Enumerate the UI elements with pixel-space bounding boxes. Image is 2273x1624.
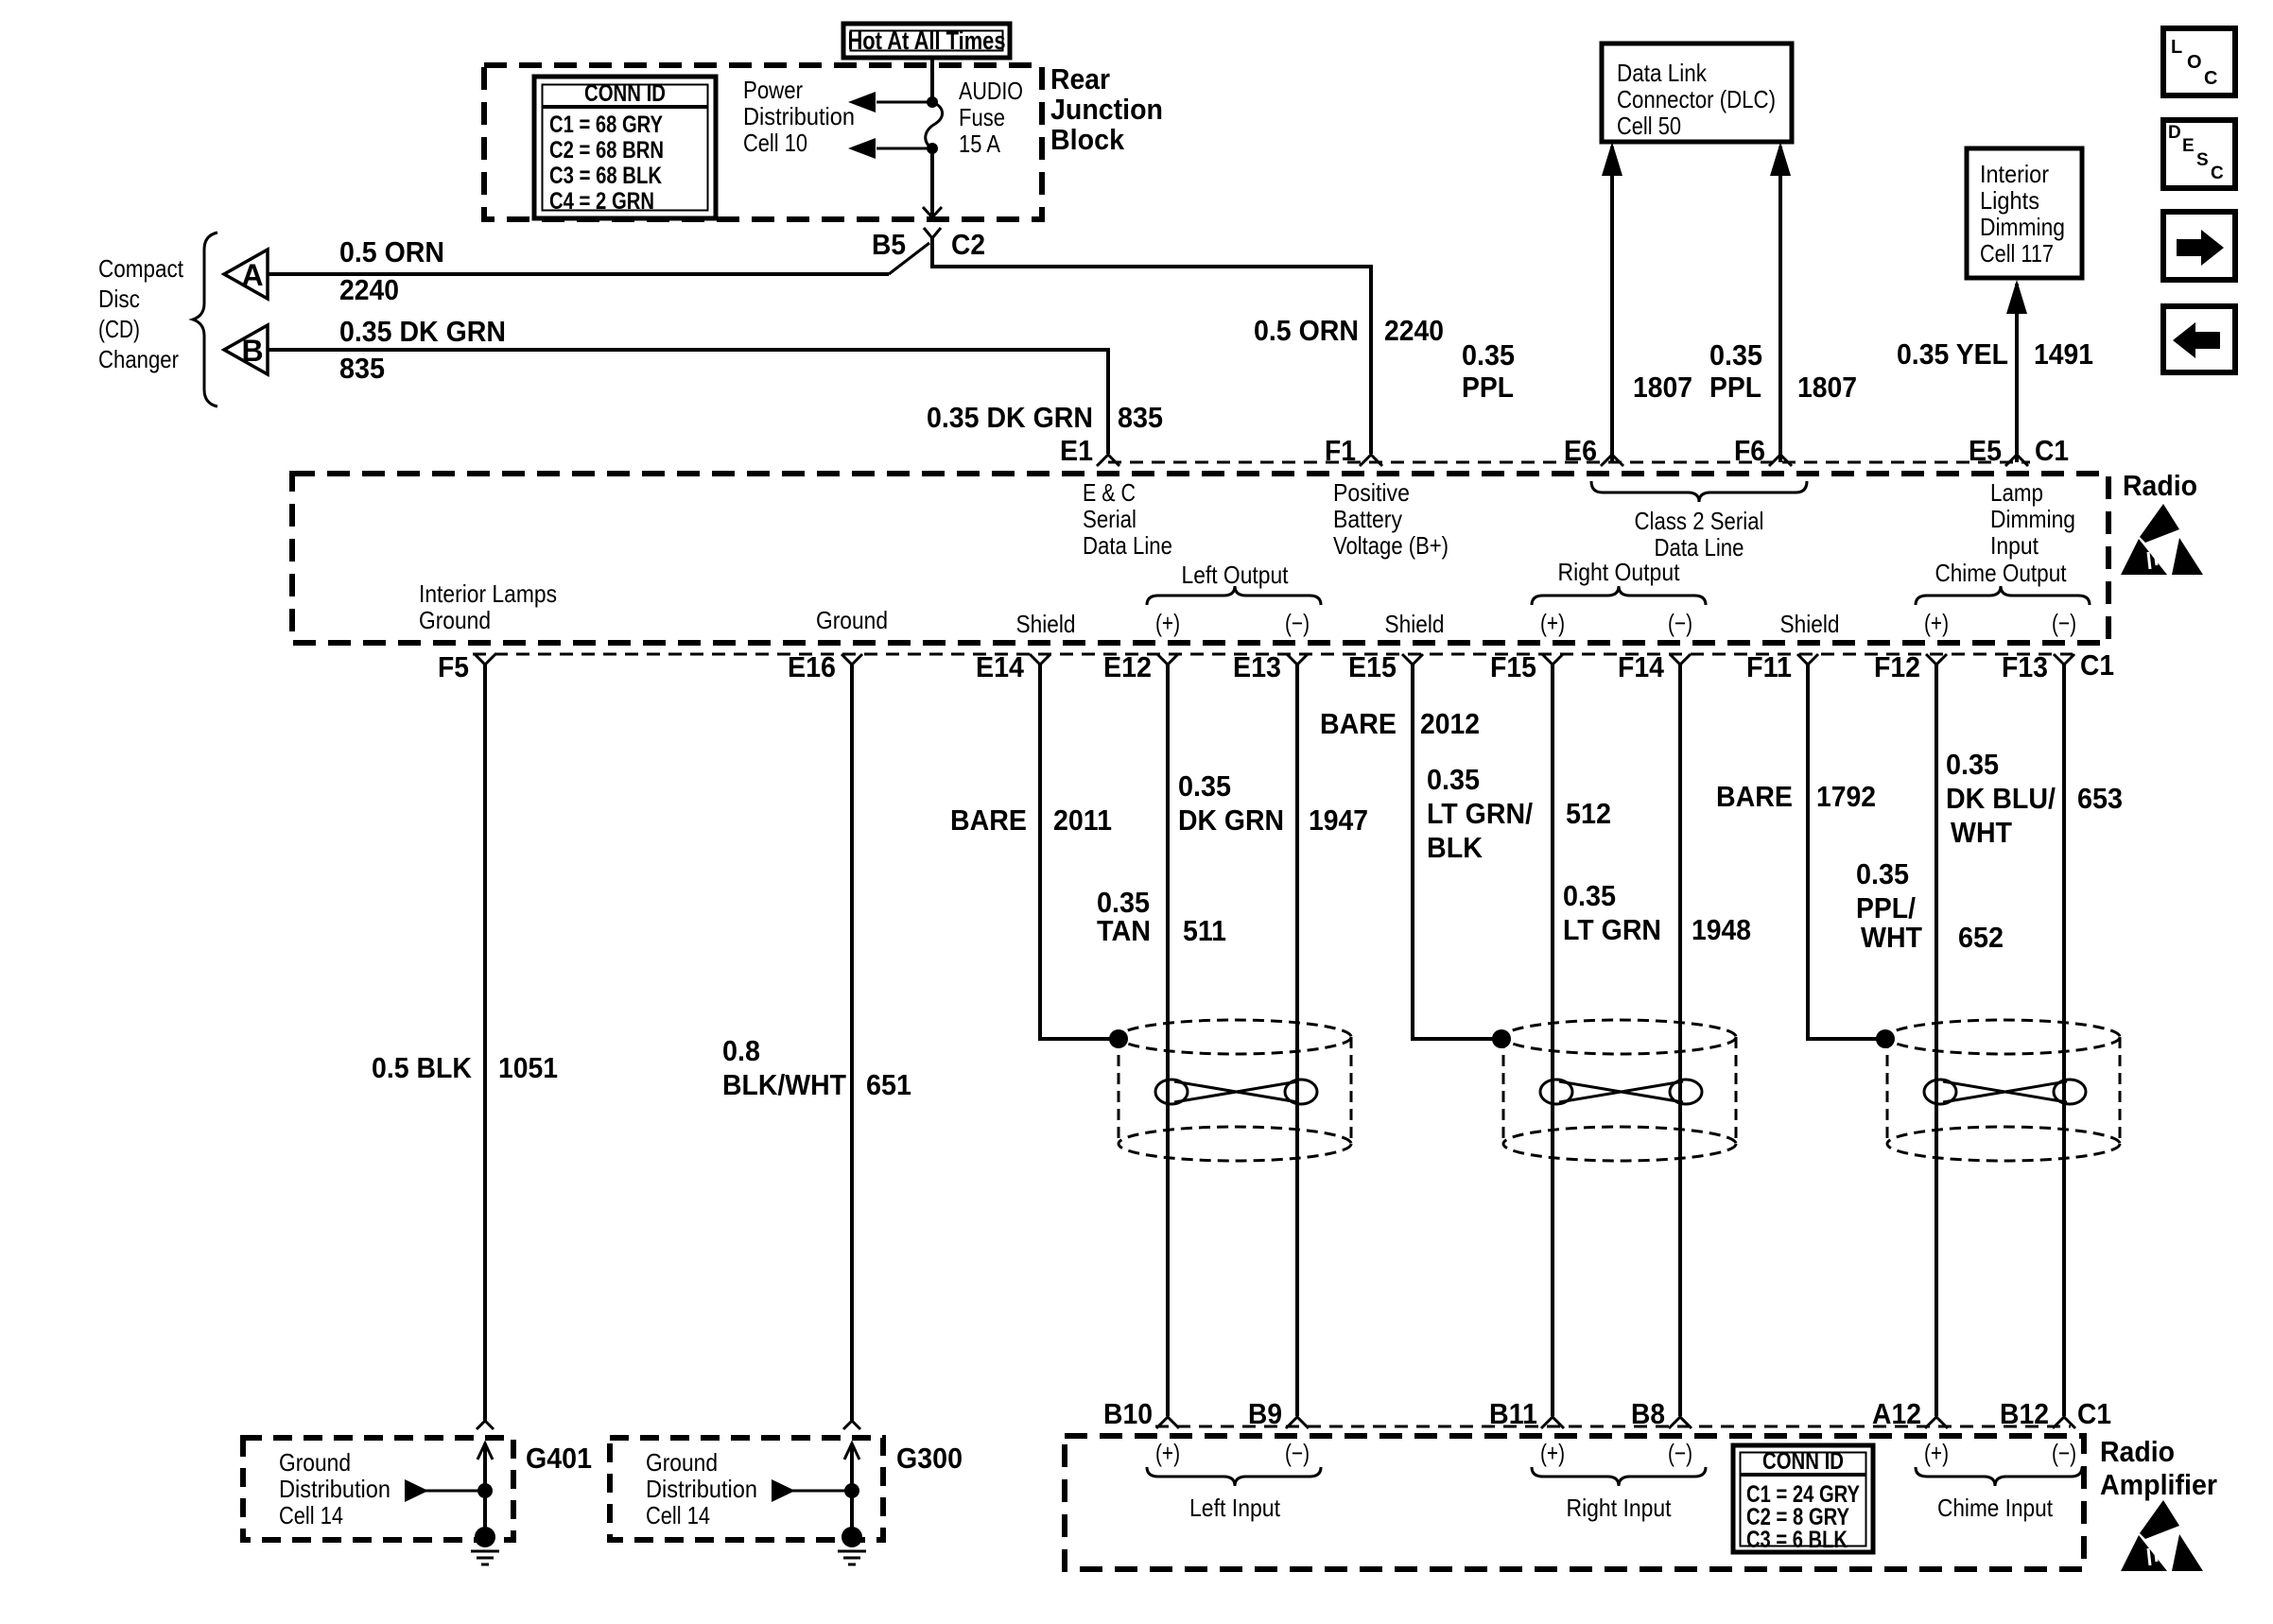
pin F11 fork (1797, 654, 1818, 673)
svg-text:Distribution: Distribution (743, 102, 855, 130)
svg-text:Interior: Interior (1980, 160, 2049, 188)
svg-text:Radio: Radio (2123, 469, 2197, 502)
svg-text:E14: E14 (976, 650, 1025, 683)
svg-text:WHT: WHT (1861, 921, 1922, 954)
svg-text:B5: B5 (872, 228, 906, 261)
pin E13 fork (1287, 654, 1308, 673)
connector B5 / C2 fork (872, 228, 985, 261)
svg-text:2240: 2240 (1384, 314, 1444, 347)
label 0.35 DK GRN | 835 (at E1) (927, 401, 1163, 434)
svg-text:G300: G300 (896, 1442, 963, 1475)
Radio dashed box (292, 474, 2108, 643)
svg-text:0.35: 0.35 (1178, 769, 1231, 803)
Ground Distribution Cell 14 label (G300) (646, 1448, 757, 1529)
Data Link Connector (DLC) box (1602, 43, 1792, 142)
twisted pair symbol 1 (1155, 1080, 1317, 1104)
label 0.35 DK GRN / 835 (wire B) (339, 315, 506, 385)
svg-text:0.5 ORN: 0.5 ORN (1254, 314, 1359, 347)
svg-text:Distribution: Distribution (646, 1475, 757, 1503)
Positive Battery Voltage label (1333, 478, 1449, 560)
brace for CD changer (193, 233, 217, 406)
pin B8 fork (1669, 1416, 1692, 1428)
svg-text:0.35: 0.35 (1427, 763, 1480, 796)
svg-text:(+): (+) (1155, 1439, 1180, 1467)
svg-text:(+): (+) (1924, 609, 1949, 637)
wire F13 to B12 (2062, 665, 2066, 1416)
svg-text:E13: E13 (1233, 650, 1281, 683)
pin B12 fork (2053, 1416, 2075, 1428)
junction dot shield 1 (1109, 1029, 1128, 1048)
arrow to Power Distribution (bottom) (848, 138, 932, 159)
svg-text:BARE: BARE (1716, 780, 1793, 813)
svg-text:Serial: Serial (1083, 505, 1136, 533)
arrow into G300 (844, 1443, 859, 1490)
svg-text:BARE: BARE (950, 803, 1027, 837)
svg-text:0.35 DK GRN: 0.35 DK GRN (339, 315, 506, 348)
arrow to Power Distribution (top) (848, 92, 932, 112)
svg-text:O: O (2187, 52, 2202, 73)
svg-text:Cell 50: Cell 50 (1617, 112, 1681, 140)
svg-text:F13: F13 (2002, 650, 2048, 683)
svg-text:C: C (2204, 68, 2217, 89)
svg-text:(+): (+) (1540, 609, 1565, 637)
ground G300 dashed box (610, 1438, 883, 1540)
Ground Distribution Cell 14 label (G401) (279, 1448, 390, 1529)
svg-text:Left Output: Left Output (1182, 561, 1290, 589)
svg-text:C1: C1 (2077, 1397, 2111, 1430)
svg-text:652: 652 (1958, 921, 2004, 954)
label BARE | 2012 (1320, 707, 1480, 740)
svg-text:Shield: Shield (1016, 610, 1076, 638)
svg-text:(−): (−) (1668, 609, 1692, 637)
svg-text:D: D (2168, 123, 2181, 143)
label 0.35 TAN | 511 (1097, 886, 1226, 947)
svg-text:Compact: Compact (98, 254, 184, 283)
svg-text:E: E (2182, 136, 2195, 156)
svg-text:15 A: 15 A (959, 130, 1001, 158)
svg-text:1948: 1948 (1692, 913, 1751, 946)
svg-text:0.5 ORN: 0.5 ORN (339, 235, 444, 268)
svg-text:Data Line: Data Line (1083, 531, 1172, 560)
Left Input brace and label (1147, 1467, 1321, 1486)
Power Distribution Cell 10 label (743, 76, 855, 157)
svg-text:0.35: 0.35 (1709, 338, 1762, 371)
pin A12 fork (1925, 1416, 1948, 1428)
svg-text:Shield: Shield (1780, 610, 1840, 638)
svg-text:0.35: 0.35 (1563, 879, 1616, 912)
radio bottom connector line C1 (473, 653, 2073, 656)
label 0.5 BLK | 1051 (372, 1051, 558, 1084)
svg-text:E1: E1 (1060, 434, 1093, 467)
svg-text:Right Output: Right Output (1558, 558, 1681, 586)
svg-text:(−): (−) (1285, 609, 1310, 637)
svg-text:B10: B10 (1103, 1397, 1153, 1430)
svg-text:DK BLU/: DK BLU/ (1946, 782, 2056, 815)
svg-text:Amplifier: Amplifier (2100, 1468, 2217, 1501)
svg-text:0.8: 0.8 (722, 1034, 760, 1067)
branch arrow inside G300 (772, 1479, 859, 1502)
svg-text:Right Input: Right Input (1567, 1494, 1673, 1522)
svg-text:2012: 2012 (1420, 707, 1480, 740)
svg-text:1807: 1807 (1633, 371, 1692, 404)
svg-text:1807: 1807 (1797, 371, 1857, 404)
CD changer connector B (224, 325, 268, 374)
svg-text:B8: B8 (1631, 1397, 1665, 1430)
svg-text:C2 = 68 BRN: C2 = 68 BRN (549, 137, 664, 164)
svg-text:Cell 14: Cell 14 (279, 1501, 343, 1529)
svg-text:(CD): (CD) (98, 315, 140, 343)
svg-text:A: A (241, 258, 263, 292)
wire F6 up-arrow to DLC (1770, 142, 1791, 462)
svg-text:F6: F6 (1734, 434, 1765, 467)
svg-text:Chime Input: Chime Input (1937, 1494, 2054, 1522)
svg-text:Interior Lamps: Interior Lamps (419, 579, 557, 608)
svg-text:Data Link: Data Link (1617, 59, 1708, 87)
svg-text:BLK/WHT: BLK/WHT (722, 1068, 846, 1101)
svg-text:CONN ID: CONN ID (1762, 1448, 1844, 1475)
svg-text:Shield: Shield (1385, 610, 1445, 638)
pin F1 fork (1360, 454, 1382, 466)
label 0.35 LT GRN/BLK | 512 (1427, 763, 1611, 864)
svg-text:0.35: 0.35 (1462, 338, 1515, 371)
svg-text:E12: E12 (1103, 650, 1152, 683)
svg-text:BLK: BLK (1427, 831, 1484, 864)
svg-text:LT GRN: LT GRN (1563, 913, 1661, 946)
svg-text:Cell 14: Cell 14 (646, 1501, 710, 1529)
Rear Junction Block dashed box (484, 65, 1042, 219)
svg-text:Changer: Changer (98, 345, 179, 373)
twisted pair symbol 2 (1540, 1080, 1702, 1104)
wire E6 up-arrow to DLC (1602, 142, 1622, 462)
twisted pair shield 1 (dashed cylinder) (1119, 1020, 1351, 1161)
amplifier top connector line C1 (1155, 1425, 2071, 1428)
wire E5 up-arrow to Interior Lights Dimming (2006, 280, 2027, 462)
svg-text:Ground: Ground (816, 606, 888, 634)
svg-text:511: 511 (1183, 914, 1226, 947)
svg-text:2240: 2240 (339, 273, 399, 306)
wire E15 shield to twisted pair 2 (1413, 665, 1495, 1039)
CONN ID table (radio amplifier) (1733, 1445, 1873, 1553)
ground symbol G401 (471, 1491, 499, 1564)
svg-text:E16: E16 (788, 650, 836, 683)
radio top connector line C1 (1108, 461, 2030, 464)
svg-text:0.35: 0.35 (1946, 748, 1999, 781)
wire E16 to G300 (850, 665, 854, 1421)
label 0.35 DK BLU/WHT | 653 (1946, 748, 2123, 849)
svg-text:0.35: 0.35 (1856, 857, 1909, 890)
connector fork into G300 (843, 1421, 860, 1429)
Class 2 Serial Data Line brace (1591, 481, 1807, 502)
svg-text:Ground: Ground (646, 1448, 718, 1477)
svg-text:WHT: WHT (1951, 816, 2012, 849)
svg-text:Rear: Rear (1050, 62, 1110, 95)
junction dot shield 2 (1492, 1029, 1511, 1048)
pin F13 fork (2054, 654, 2074, 673)
svg-text:(+): (+) (1155, 609, 1180, 637)
svg-text:Dimming: Dimming (1990, 505, 2075, 533)
svg-text:E5: E5 (1969, 434, 2002, 467)
svg-text:L: L (2171, 37, 2182, 58)
svg-text:DK GRN: DK GRN (1178, 803, 1284, 837)
pin F5 fork (475, 654, 495, 673)
CONN ID table (rear junction block) (534, 77, 716, 218)
twisted pair symbol 3 (1924, 1080, 2086, 1104)
svg-text:F5: F5 (438, 650, 469, 683)
pin F14 fork (1670, 654, 1691, 673)
svg-text:0.35 YEL: 0.35 YEL (1897, 337, 2008, 371)
Interior Lights Dimming box (1967, 148, 2082, 278)
Right Input brace and label (1532, 1467, 1706, 1486)
ground symbol G300 (838, 1491, 866, 1564)
svg-text:Distribution: Distribution (279, 1475, 390, 1503)
label 0.35 PPL/WHT | 652 (1856, 857, 2004, 954)
svg-text:C2: C2 (951, 228, 985, 261)
svg-text:PPL: PPL (1462, 371, 1514, 404)
svg-text:F15: F15 (1490, 650, 1536, 683)
svg-text:E6: E6 (1564, 434, 1597, 467)
wire F11 shield to twisted pair 3 (1808, 665, 1879, 1039)
svg-text:S: S (2196, 150, 2209, 170)
svg-text:Lights: Lights (1980, 186, 2039, 215)
Radio Amplifier dashed box (1065, 1436, 2084, 1569)
svg-text:Voltage (B+): Voltage (B+) (1333, 531, 1449, 560)
svg-text:(−): (−) (1285, 1439, 1310, 1467)
label 0.8 BLK/WHT | 651 (722, 1034, 911, 1101)
svg-text:Left Input: Left Input (1189, 1494, 1281, 1522)
svg-text:651: 651 (866, 1068, 911, 1101)
pin E6 fork (1601, 455, 1623, 466)
svg-text:(−): (−) (2052, 609, 2076, 637)
wire F14 to B8 (1678, 665, 1682, 1416)
LOC box (2163, 28, 2235, 95)
label BARE | 2011 (950, 803, 1112, 837)
pin E12 fork (1157, 654, 1178, 673)
Rear Junction Block label (1050, 62, 1163, 156)
pin B10 fork (1156, 1416, 1179, 1428)
svg-text:835: 835 (1118, 401, 1163, 434)
svg-text:835: 835 (339, 352, 385, 385)
wire E13 to B9 (1295, 665, 1299, 1416)
svg-text:A12: A12 (1872, 1397, 1921, 1430)
DESC box (2163, 120, 2235, 188)
wire F12 to A12 (1935, 665, 1938, 1416)
svg-text:Lamp: Lamp (1990, 478, 2043, 507)
svg-text:C3 = 68 BLK: C3 = 68 BLK (549, 163, 662, 189)
svg-text:(−): (−) (1668, 1439, 1692, 1467)
ESD symbol (radio amplifier) (2121, 1500, 2203, 1571)
wire B to E1 (268, 350, 1108, 454)
svg-text:2011: 2011 (1053, 803, 1112, 837)
wire F15 to B11 (1551, 665, 1554, 1416)
label 0.35 YEL | 1491 (E5) (1897, 337, 2093, 371)
ESD symbol (radio) (2121, 504, 2203, 575)
pin E1 fork (1097, 454, 1119, 466)
svg-text:1051: 1051 (498, 1051, 558, 1084)
AUDIO Fuse 15 A (926, 77, 1023, 158)
wire E12 to B10 (1166, 665, 1170, 1416)
label 0.5 ORN / 2240 (wire A) (339, 235, 444, 306)
wire fuse to C2 connector with down arrow (923, 148, 942, 220)
svg-text:C4 = 2 GRN: C4 = 2 GRN (549, 188, 654, 215)
svg-text:C1 = 68 GRY: C1 = 68 GRY (549, 112, 663, 138)
pin E5 fork (2005, 455, 2028, 466)
svg-text:TAN: TAN (1097, 914, 1151, 947)
pin B11 fork (1541, 1416, 1564, 1428)
pin B9 fork (1286, 1416, 1309, 1428)
E & C Serial Data Line label (1083, 478, 1172, 560)
label 0.35 PPL | 1807 (F6) (1709, 338, 1857, 404)
left arrow box (2163, 306, 2235, 372)
wire branch B5 to CD changer A (diagonal) (889, 243, 929, 274)
svg-text:C1: C1 (2080, 648, 2114, 682)
svg-text:Input: Input (1990, 531, 2039, 560)
junction dot shield 3 (1876, 1029, 1895, 1048)
svg-text:(−): (−) (2052, 1439, 2076, 1467)
svg-text:1491: 1491 (2034, 337, 2093, 371)
svg-text:653: 653 (2077, 782, 2123, 815)
wire A to CD changer (268, 272, 889, 276)
svg-text:E15: E15 (1348, 650, 1397, 683)
svg-text:Ground: Ground (279, 1448, 351, 1477)
Lamp Dimming Input label (1990, 478, 2075, 560)
svg-text:0.5 BLK: 0.5 BLK (372, 1051, 473, 1084)
svg-text:0.35 DK GRN: 0.35 DK GRN (927, 401, 1093, 434)
wire F5 to G401 (483, 665, 487, 1421)
svg-text:B9: B9 (1248, 1397, 1282, 1430)
pin E14 fork (1030, 654, 1050, 673)
Interior Lamps Ground label (419, 579, 557, 634)
svg-text:Dimming: Dimming (1980, 213, 2065, 241)
svg-text:Connector (DLC): Connector (DLC) (1617, 85, 1776, 113)
pin F15 fork (1542, 654, 1563, 673)
svg-text:PPL: PPL (1709, 371, 1761, 404)
svg-text:Hot At All Times: Hot At All Times (848, 26, 1006, 55)
ground G401 dashed box (243, 1438, 513, 1540)
svg-text:Cell 10: Cell 10 (743, 129, 807, 157)
twisted pair shield 3 (dashed cylinder) (1887, 1020, 2120, 1161)
Compact Disc (CD) Changer label (98, 254, 184, 373)
label 0.35 PPL | 1807 (E6) (1462, 338, 1692, 404)
svg-text:BARE: BARE (1320, 707, 1397, 740)
Chime Input brace and label (1916, 1467, 2082, 1486)
svg-text:Class 2 Serial: Class 2 Serial (1635, 507, 1764, 535)
svg-text:C: C (2211, 164, 2224, 183)
svg-text:B: B (241, 334, 263, 368)
svg-text:B12: B12 (2000, 1397, 2049, 1430)
label 0.35 LT GRN | 1948 (1563, 879, 1751, 946)
svg-text:Junction: Junction (1050, 93, 1163, 126)
svg-text:PPL/: PPL/ (1856, 891, 1916, 924)
wire E14 shield to twisted pair 1 (1040, 665, 1112, 1039)
Hot At All Times box (843, 24, 1010, 58)
svg-text:(+): (+) (1924, 1439, 1949, 1467)
svg-text:1792: 1792 (1816, 780, 1876, 813)
svg-text:Positive: Positive (1333, 478, 1410, 507)
svg-text:E & C: E & C (1083, 478, 1136, 507)
svg-text:F12: F12 (1874, 650, 1920, 683)
svg-text:Radio: Radio (2100, 1435, 2175, 1468)
svg-text:B11: B11 (1489, 1397, 1537, 1430)
pin F6 fork (1769, 455, 1792, 466)
svg-text:Disc: Disc (98, 285, 140, 313)
wire C2 down to F1 (932, 238, 1371, 454)
svg-text:AUDIO: AUDIO (959, 77, 1023, 105)
Radio Amplifier label (2100, 1435, 2217, 1501)
arrow into G401 (477, 1443, 493, 1490)
svg-text:Fuse: Fuse (959, 103, 1005, 131)
pin E16 fork (842, 654, 862, 673)
svg-text:Power: Power (743, 76, 803, 104)
svg-text:F1: F1 (1325, 434, 1356, 467)
twisted pair shield 2 (dashed cylinder) (1503, 1020, 1736, 1161)
wire Hot At All Times to fuse (930, 58, 934, 102)
svg-text:512: 512 (1566, 797, 1611, 830)
svg-text:F11: F11 (1746, 650, 1792, 683)
pin E15 fork (1402, 654, 1423, 673)
svg-text:Ground: Ground (419, 606, 491, 634)
svg-text:C3 = 6 BLK: C3 = 6 BLK (1746, 1527, 1848, 1553)
svg-text:Cell 117: Cell 117 (1980, 239, 2054, 268)
svg-text:Battery: Battery (1333, 505, 1402, 533)
svg-text:C1: C1 (2035, 434, 2069, 467)
svg-text:CONN ID: CONN ID (584, 80, 666, 107)
svg-text:(+): (+) (1540, 1439, 1565, 1467)
label 0.35 DK GRN | 1947 (1178, 769, 1368, 837)
label 0.5 ORN | 2240 (at F1) (1254, 314, 1444, 347)
branch arrow inside G401 (405, 1479, 493, 1502)
svg-text:Chime Output: Chime Output (1935, 559, 2068, 587)
CD changer connector A (224, 250, 268, 299)
pin F12 fork (1926, 654, 1947, 673)
svg-text:G401: G401 (526, 1442, 592, 1475)
svg-text:1947: 1947 (1309, 803, 1368, 837)
connector fork into G401 (477, 1421, 494, 1429)
right arrow box (2163, 212, 2235, 280)
svg-text:LT GRN/: LT GRN/ (1427, 797, 1533, 830)
svg-text:F14: F14 (1618, 650, 1665, 683)
svg-text:Block: Block (1050, 123, 1125, 156)
label BARE | 1792 (1716, 780, 1876, 813)
